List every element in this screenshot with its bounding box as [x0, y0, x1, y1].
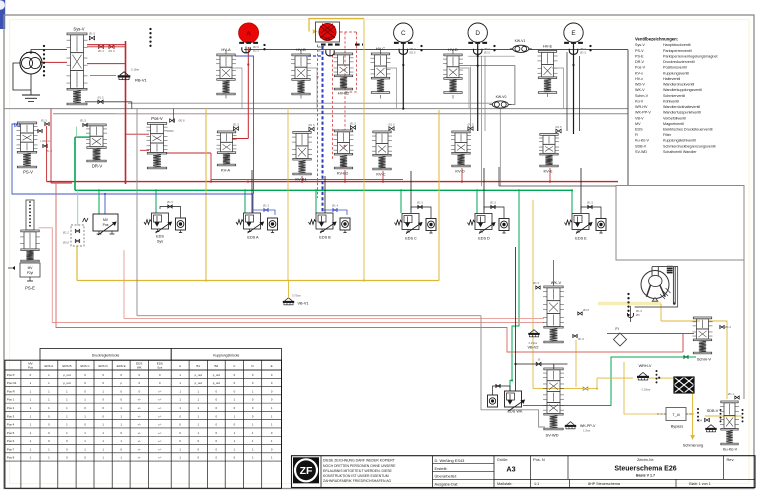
valve HV-C — [371, 46, 391, 93]
svg-text:EDS B: EDS B — [319, 236, 331, 240]
node A — [239, 23, 259, 44]
wire yellow lube outlet arrow — [690, 393, 695, 441]
svg-text:KV-x: KV-x — [635, 71, 643, 75]
svg-text:+/-: +/- — [158, 414, 161, 418]
svg-text:+/-: +/- — [138, 447, 141, 451]
svg-text:EDS A: EDS A — [44, 364, 53, 368]
svg-text:Sys: Sys — [157, 240, 163, 244]
svg-text:EDS C: EDS C — [405, 237, 417, 241]
svg-text:KV-B2: KV-B2 — [337, 171, 349, 176]
svg-text:+/-: +/- — [158, 447, 161, 451]
wire drops from node circles — [402, 44, 574, 134]
svg-text:A3: A3 — [506, 465, 515, 474]
svg-text:P2yl: P2yl — [27, 271, 33, 275]
wire red Fi to Schm-V — [607, 333, 694, 335]
restrictor dashed box — [63, 225, 84, 246]
svg-text:0.25bar: 0.25bar — [529, 341, 538, 345]
wire red Fi feed — [682, 334, 684, 353]
wire red dashed pilots around node B — [316, 32, 356, 198]
svg-text:MV: MV — [103, 218, 109, 222]
svg-text:Wandlerkupplungsventil: Wandlerkupplungsventil — [663, 88, 702, 92]
svg-text:Schaltventil Wandler: Schaltventil Wandler — [663, 150, 697, 154]
svg-text:KW-V0: KW-V0 — [496, 95, 507, 99]
solenoid EDS WK — [488, 384, 525, 413]
svg-text:ZF: ZF — [300, 465, 313, 477]
svg-text:NOCH DRITTEN PERSONEN OHNE UNS: NOCH DRITTEN PERSONEN OHNE UNSERE — [323, 464, 396, 468]
wire second gray bus y113 — [53, 113, 628, 115]
svg-text:Pos 3: Pos 3 — [7, 414, 15, 418]
svg-text:5.1Bar: 5.1Bar — [131, 68, 139, 72]
wire yellow risers — [77, 20, 439, 281]
wire yellow lube line to cooler — [583, 377, 674, 391]
valve KV-C — [372, 123, 395, 177]
svg-text:Pos 1: Pos 1 — [7, 398, 15, 402]
wire HV tops to header — [226, 50, 548, 54]
solenoid EDS E — [565, 201, 607, 241]
svg-text:+/-: +/- — [138, 431, 141, 435]
svg-text:+/-: +/- — [158, 439, 161, 443]
valve PS-V — [15, 119, 53, 175]
wire blue EDS A loop — [254, 204, 276, 216]
svg-text:Pos: Pos — [103, 223, 109, 227]
svg-text:EDS D: EDS D — [478, 237, 490, 241]
svg-text:WR-HV: WR-HV — [635, 105, 648, 109]
wire green bus y190 — [75, 189, 573, 191]
valve KV-D — [451, 123, 474, 174]
wire red pump to Sys-V y62.4 — [40, 61, 67, 63]
svg-text:EDS E: EDS E — [575, 237, 587, 241]
svg-text:Schmierung: Schmierung — [683, 444, 703, 448]
wire pale yellow converter feed — [598, 302, 652, 306]
svg-text:Bypass: Bypass — [671, 425, 684, 429]
valve Schm-V — [693, 317, 732, 362]
svg-text:x 48mm²: x 48mm² — [40, 139, 50, 143]
wire green Schm-V line — [523, 355, 696, 405]
svg-text:Kupplungskühlventil: Kupplungskühlventil — [663, 139, 696, 143]
svg-text:A: A — [246, 30, 251, 37]
valve DR-V — [80, 119, 107, 169]
svg-text:HV-B2: HV-B2 — [338, 91, 350, 96]
wire main gray bus y108 — [4, 108, 628, 110]
wire blue EDS B loop — [323, 204, 348, 216]
wire gray EDS-WK housing — [481, 316, 545, 427]
svg-text:SDB-V: SDB-V — [707, 409, 719, 413]
svg-text:VB-V: VB-V — [635, 116, 644, 120]
svg-text:Zeichn-Nr:: Zeichn-Nr: — [637, 458, 654, 462]
wire blue dashed pilot to EDS B — [308, 46, 323, 213]
svg-text:WK-PP-V: WK-PP-V — [635, 111, 651, 115]
svg-text:VB-V1: VB-V1 — [298, 302, 309, 306]
svg-text:VB-V2: VB-V2 — [528, 346, 539, 350]
wire red main pressure bus y181 — [47, 181, 618, 183]
legend Ventilbezeichnungen — [635, 37, 718, 154]
svg-text:C: C — [401, 30, 406, 37]
svg-text:Ø2.5: Ø2.5 — [580, 51, 587, 55]
valve KV-E — [539, 125, 562, 174]
svg-text:Ø0.8: Ø0.8 — [63, 241, 70, 245]
svg-text:+/-: +/- — [158, 423, 161, 427]
svg-text:Ø1.4: Ø1.4 — [728, 392, 735, 396]
svg-text:Ø0: Ø0 — [636, 313, 640, 317]
node B solenoid box — [316, 22, 364, 45]
svg-text:Größe:: Größe: — [497, 458, 508, 462]
svg-text:Ventilbezeichnungen:: Ventilbezeichnungen: — [635, 37, 678, 42]
ground — [22, 95, 40, 102]
svg-text:Ø1.0: Ø1.0 — [725, 325, 732, 329]
svg-text:EDS E: EDS E — [117, 364, 126, 368]
svg-text:ERLAUBNIS MITGETEILT WERDEN. D: ERLAUBNIS MITGETEILT WERDEN. DIESE — [323, 469, 393, 473]
svg-text:EDS WK: EDS WK — [508, 410, 523, 414]
bypass box T_oel — [657, 408, 692, 429]
svg-text:EDS B: EDS B — [62, 364, 71, 368]
wire Sys-V bottom branch — [85, 96, 132, 109]
svg-text:Fi: Fi — [615, 326, 618, 331]
svg-text:Pos-V: Pos-V — [635, 66, 646, 70]
wire salmon overlay on y113 bus — [115, 113, 253, 115]
svg-text:p_red: p_red — [195, 381, 203, 385]
svg-text:Ø2.5: Ø2.5 — [253, 49, 260, 53]
oil cooler — [674, 377, 694, 393]
svg-text:+/-: +/- — [158, 456, 161, 460]
svg-text:E: E — [271, 364, 273, 368]
wire gray D-columns — [468, 56, 515, 186]
svg-text:Ausgabe-Dat:: Ausgabe-Dat: — [435, 482, 459, 487]
svg-text:Ø1.5: Ø1.5 — [555, 125, 562, 129]
svg-text:Pos N1: Pos N1 — [7, 381, 17, 385]
svg-text:DIESE ZEICHNUNG DARF WEDER KOP: DIESE ZEICHNUNG DARF WEDER KOPIERT — [323, 459, 396, 463]
svg-text:Wandlerrückhalteventil: Wandlerrückhalteventil — [663, 105, 700, 109]
svg-text:Steuerschema E26: Steuerschema E26 — [614, 466, 676, 473]
svg-text:T_öl: T_öl — [673, 413, 680, 417]
svg-text:KV-D: KV-D — [455, 169, 464, 174]
svg-text:Ø1.5: Ø1.5 — [97, 96, 104, 100]
svg-text:PS-E: PS-E — [25, 286, 35, 291]
svg-text:EDS: EDS — [635, 128, 643, 132]
svg-text:+/-: +/- — [138, 398, 141, 402]
wire box to KV-E link — [499, 167, 616, 186]
wire green DR-V riser — [75, 127, 90, 191]
valve HV-B2 — [334, 53, 354, 96]
svg-text:Pos: Pos — [28, 365, 34, 369]
svg-text:p_red: p_red — [195, 373, 203, 377]
valve KW-V1 — [510, 39, 532, 52]
orifice group right of WK-V — [628, 306, 643, 322]
svg-text:+/-: +/- — [138, 439, 141, 443]
svg-text:Pos 8: Pos 8 — [7, 456, 15, 460]
blue page-edge bar — [0, 0, 5, 29]
wire yellow WK column x533 — [533, 200, 583, 389]
svg-text:Ø2.0: Ø2.0 — [484, 51, 491, 55]
wire black KV to EDS columns — [252, 168, 581, 213]
svg-text:1.2bar: 1.2bar — [583, 429, 590, 433]
svg-text:PS-E: PS-E — [635, 54, 644, 58]
valve HV-D — [443, 47, 463, 93]
svg-text:Erstellt:: Erstellt: — [435, 466, 448, 471]
solenoid EDS B — [309, 213, 351, 240]
svg-text:Ø0.8: Ø0.8 — [583, 308, 590, 312]
svg-text:Ø1.5: Ø1.5 — [41, 119, 48, 123]
svg-text:Ø2.5: Ø2.5 — [410, 51, 417, 55]
svg-text:KV-C: KV-C — [376, 172, 385, 177]
svg-text:Ø1.2: Ø1.2 — [63, 231, 70, 235]
svg-text:p_red: p_red — [213, 381, 221, 385]
svg-text:D: D — [475, 30, 480, 37]
svg-text:Sys-V: Sys-V — [635, 43, 645, 47]
svg-text:WK-V: WK-V — [635, 88, 645, 92]
svg-text:PS-V: PS-V — [23, 170, 33, 175]
wire yellow bus y280 — [77, 279, 439, 281]
svg-text:+/-: +/- — [158, 398, 161, 402]
wire yellow Schm-V loop — [652, 304, 742, 417]
wire salmon long return lines — [39, 109, 684, 352]
svg-text:Pos-V: Pos-V — [151, 116, 163, 121]
svg-text:0.25bar: 0.25bar — [642, 388, 651, 392]
pump — [20, 51, 42, 74]
svg-text:Filter: Filter — [663, 133, 672, 137]
gray housing box right — [616, 186, 744, 261]
wire Pos-V right column — [167, 109, 174, 131]
svg-text:HV-x: HV-x — [635, 77, 643, 81]
solenoid EDS D — [468, 201, 510, 241]
wire yellow bypass loop — [624, 362, 693, 414]
wire red left risers — [47, 109, 72, 183]
valve VB-V1 — [283, 281, 309, 306]
svg-text:Pos 5: Pos 5 — [7, 431, 15, 435]
svg-text:DR-V: DR-V — [92, 164, 102, 169]
valve SDB-V — [697, 408, 719, 432]
wire yellow into node B — [309, 19, 364, 34]
svg-text:p_red: p_red — [63, 381, 71, 385]
svg-text:KONSTRUKTION IST UNSER EIGENTU: KONSTRUKTION IST UNSER EIGENTUM — [323, 474, 389, 478]
svg-text:Sys-V: Sys-V — [73, 27, 84, 32]
svg-text:Blatt: 1 von 1: Blatt: 1 von 1 — [689, 482, 711, 486]
svg-text:Ø1.5: Ø1.5 — [80, 119, 87, 123]
wire HV bottoms stems — [226, 94, 548, 99]
svg-text:SV-WD: SV-WD — [545, 433, 558, 438]
valve PS-E — [8, 200, 40, 291]
svg-text:Kupplungsbrücke: Kupplungsbrücke — [213, 354, 239, 358]
valve KV-B1 — [292, 123, 315, 182]
svg-text:Vorbefüllventil: Vorbefüllventil — [663, 116, 686, 120]
svg-text:Druckreduzierventil: Druckreduzierventil — [663, 60, 695, 64]
svg-text:Überarbeitet:: Überarbeitet: — [435, 474, 458, 479]
valve RB-V1 — [118, 68, 148, 83]
anchor symbol A — [242, 44, 266, 53]
svg-text:Kupplungsventil: Kupplungsventil — [663, 71, 689, 75]
box KW housing — [459, 65, 515, 105]
wire green MV Pos drop — [98, 189, 100, 214]
svg-text:Ø0.8: Ø0.8 — [179, 119, 186, 123]
node E — [564, 23, 583, 44]
svg-text:Ø1.5: Ø1.5 — [388, 123, 395, 127]
anchor symbol D — [474, 45, 496, 55]
svg-text:WK: WK — [137, 365, 142, 369]
svg-text:EDS D: EDS D — [99, 364, 109, 368]
valve VB-V2 — [528, 330, 540, 350]
wire gray bus y103 to KW-V0 — [128, 102, 492, 104]
svg-text:HV-E: HV-E — [543, 44, 553, 49]
svg-text:+/-: +/- — [138, 414, 141, 418]
svg-text:Elektrisches Drucksteuerventil: Elektrisches Drucksteuerventil — [663, 128, 713, 132]
svg-text:Hauptdruckventil: Hauptdruckventil — [663, 43, 691, 47]
svg-text:KV-E: KV-E — [543, 169, 552, 174]
svg-text:PS-V: PS-V — [635, 49, 644, 53]
svg-text:Ø1.5: Ø1.5 — [417, 201, 424, 205]
svg-text:Ø1.5: Ø1.5 — [350, 122, 357, 126]
wire top header line y49.6 — [244, 49, 628, 51]
svg-text:+/-: +/- — [138, 406, 141, 410]
svg-text:Ø1.5: Ø1.5 — [89, 32, 96, 36]
svg-text:Rev:: Rev: — [727, 457, 735, 462]
torque converter — [635, 266, 678, 307]
svg-text:Ø1.5: Ø1.5 — [167, 200, 174, 204]
wire red supply horizontal y44.7 — [87, 44, 126, 46]
svg-text:EDS A: EDS A — [247, 236, 259, 240]
valve Fi filter — [614, 326, 627, 346]
svg-text:Pos P: Pos P — [7, 373, 15, 377]
svg-text:KV-A: KV-A — [221, 168, 230, 173]
svg-text:WK-PP-V: WK-PP-V — [580, 424, 596, 428]
svg-text:+/-: +/- — [158, 389, 161, 393]
svg-text:p_red: p_red — [213, 373, 221, 377]
node D — [468, 23, 487, 44]
svg-text:p_red: p_red — [63, 373, 71, 377]
valve KV-A — [217, 123, 240, 173]
svg-text:+/-: +/- — [158, 431, 161, 435]
wire red RB-V1 branch — [90, 76, 149, 135]
svg-text:Sys: Sys — [157, 365, 163, 369]
gray link to Ku-Kue-V — [743, 260, 745, 399]
svg-text:Ø1.2: Ø1.2 — [46, 149, 53, 153]
wire palegreen restrictor feed — [77, 190, 79, 225]
solenoid EDS C — [395, 201, 437, 241]
svg-text:+/-: +/- — [158, 406, 161, 410]
wire green EDS-WK feed x519 — [510, 190, 519, 391]
state table — [5, 349, 282, 489]
wire HV side drops — [231, 68, 564, 109]
svg-text:B1: B1 — [196, 364, 200, 368]
solenoid EDS A — [236, 213, 278, 240]
svg-text:Ø1.5: Ø1.5 — [308, 123, 315, 127]
svg-text:Pos 6: Pos 6 — [7, 439, 15, 443]
valve Pos-V — [147, 116, 186, 169]
wire black SV-WD feed — [514, 247, 567, 391]
connector dotbar converter — [627, 293, 629, 316]
wire blue HV-A to EDS A — [235, 56, 254, 194]
svg-text:Ø1.5: Ø1.5 — [233, 123, 240, 127]
anchor symbol B — [318, 45, 334, 56]
title block — [292, 456, 756, 488]
wire yellow WK-PP column — [575, 340, 577, 387]
svg-text:Fi: Fi — [635, 133, 638, 137]
svg-text:Pos 4: Pos 4 — [7, 423, 15, 427]
wire red Pos-V link y153 — [140, 150, 211, 181]
svg-text:Ku-Kü-V: Ku-Kü-V — [635, 139, 649, 143]
svg-text:Positionsventil: Positionsventil — [663, 66, 687, 70]
svg-text:KV-B1: KV-B1 — [295, 177, 307, 182]
svg-text:Schm-V: Schm-V — [697, 357, 712, 362]
wire red KV risers — [302, 168, 550, 182]
valve WRH-V — [637, 364, 658, 392]
svg-text:EDS C: EDS C — [80, 364, 90, 368]
valve WK-V — [533, 260, 590, 343]
svg-text:WRH-V: WRH-V — [639, 364, 652, 368]
svg-text:Pos. N: Pos. N — [533, 457, 545, 462]
wire blue PS-V pilot — [12, 124, 253, 214]
svg-text:+/-: +/- — [138, 456, 141, 460]
valve KV-B2 — [334, 122, 357, 176]
connector dotbar Sys-V — [149, 28, 151, 47]
svg-text:Ø1.0: Ø1.0 — [108, 49, 115, 53]
svg-text:B2: B2 — [214, 364, 218, 368]
svg-text:Pos R: Pos R — [7, 389, 15, 393]
wire green EDS drops — [156, 190, 572, 213]
svg-text:Kü-V: Kü-V — [635, 99, 644, 103]
valve KW-V0 — [489, 95, 511, 108]
svg-text:Ku-Kü-V: Ku-Kü-V — [723, 448, 738, 452]
svg-text:Schmierdruckbegrenzungsventil: Schmierdruckbegrenzungsventil — [663, 144, 716, 148]
svg-text:Kühlventil: Kühlventil — [663, 99, 679, 103]
svg-text:Pos 2: Pos 2 — [7, 406, 15, 410]
svg-text:Maßstab:: Maßstab: — [497, 482, 512, 486]
svg-text:EDS: EDS — [156, 235, 164, 239]
valve WK-PP-V — [565, 422, 596, 433]
svg-text:Ø1.3: Ø1.3 — [263, 204, 270, 208]
svg-text:Schm-V: Schm-V — [635, 94, 649, 98]
svg-text:0.75bar: 0.75bar — [292, 294, 301, 298]
svg-text:Ø1.6: Ø1.6 — [578, 337, 585, 341]
wire pump loop — [13, 50, 67, 95]
wire red orifice line y46.8 — [87, 45, 126, 53]
label Schmierung — [683, 444, 703, 448]
svg-text:Ø1.2: Ø1.2 — [98, 49, 105, 53]
svg-text:Basis V 1.7: Basis V 1.7 — [636, 474, 655, 478]
svg-text:ZAHNRADFABRIK FRIEDRICHSHAFEN: ZAHNRADFABRIK FRIEDRICHSHAFEN AG — [323, 479, 392, 483]
svg-text:8HP Steuerschema: 8HP Steuerschema — [588, 482, 621, 486]
svg-text:Pos 7: Pos 7 — [7, 447, 15, 451]
valve HV-E — [538, 44, 558, 94]
svg-text:KW-V1: KW-V1 — [515, 39, 526, 43]
node C — [394, 23, 413, 44]
valve HV-A — [216, 47, 236, 95]
svg-text:+/-: +/- — [138, 423, 141, 427]
svg-text:A: A — [179, 364, 181, 368]
svg-text:Wandlerdruckventil: Wandlerdruckventil — [663, 83, 694, 87]
svg-text:MV: MV — [635, 122, 641, 126]
svg-text:DR-V: DR-V — [635, 60, 645, 64]
svg-text:WK-V: WK-V — [551, 280, 562, 285]
svg-text:Parksperrenventil: Parksperrenventil — [663, 49, 692, 53]
valve SV-WD — [543, 368, 564, 438]
svg-text:E: E — [571, 30, 575, 37]
svg-text:RB-V1: RB-V1 — [135, 78, 148, 83]
svg-text:Parksperrenverriegelungsmagnet: Parksperrenverriegelungsmagnet — [663, 54, 718, 58]
svg-text:Halteventil: Halteventil — [663, 77, 680, 81]
anchor symbol C — [399, 45, 423, 55]
valve Ku-Kue-V — [720, 392, 744, 452]
solenoid MV Pos — [83, 214, 118, 235]
svg-text:SDB-V: SDB-V — [635, 144, 647, 148]
svg-text:Schmierventil: Schmierventil — [663, 94, 685, 98]
svg-text:D. Weßling ES43: D. Weßling ES43 — [435, 458, 465, 463]
valve HV-B — [291, 47, 311, 95]
svg-text:Druckreglerbrücke: Druckreglerbrücke — [92, 354, 120, 358]
svg-text:Ø1.5: Ø1.5 — [467, 123, 474, 127]
svg-text:1:1: 1:1 — [534, 482, 539, 486]
svg-text:Wandlerfusspunktventil: Wandlerfusspunktventil — [663, 111, 701, 115]
svg-text:Ø1.4: Ø1.4 — [332, 204, 339, 208]
wire red Sys-V right y63.6 — [87, 63, 126, 65]
